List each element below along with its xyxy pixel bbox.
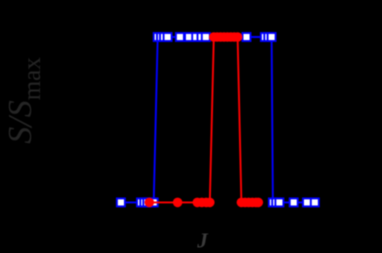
node bottom-left <box>145 198 155 208</box>
red series line <box>149 37 258 202</box>
blue series line <box>121 37 315 202</box>
node top <box>154 33 162 41</box>
wire <box>121 37 315 202</box>
y-axis label S/S_max <box>2 57 46 144</box>
svg-text:J: J <box>196 229 209 253</box>
red circles <box>145 32 264 207</box>
node bottom-right <box>237 198 247 208</box>
node bottom-left <box>117 198 125 206</box>
blue squares <box>117 33 319 206</box>
wire <box>149 37 258 202</box>
node top <box>209 32 219 42</box>
node bottom-right <box>269 198 277 206</box>
